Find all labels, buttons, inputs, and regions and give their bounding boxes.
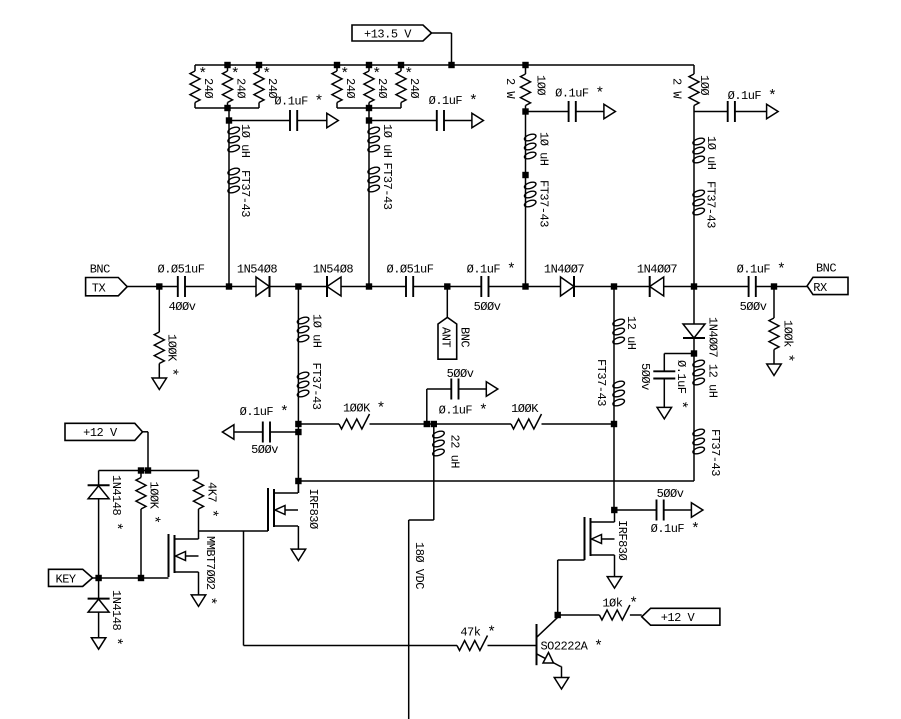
svg-text:1N4148 *: 1N4148 * bbox=[107, 590, 124, 645]
svg-text:Ø.1uF *: Ø.1uF * bbox=[737, 262, 786, 279]
svg-text:1ØØK *: 1ØØK * bbox=[162, 334, 179, 376]
node Q4 drain bbox=[611, 507, 617, 513]
off-page arrow mid bbox=[486, 382, 498, 397]
node 12uH branch junction bbox=[611, 283, 617, 289]
node Q4 gate/collector/10k bbox=[555, 612, 561, 618]
capacitor 0.1uF 500v C10 bbox=[427, 367, 488, 424]
svg-text:+12 V: +12 V bbox=[661, 611, 696, 625]
svg-text:1N4ØØ7: 1N4ØØ7 bbox=[544, 263, 585, 277]
svg-text:FT37-43: FT37-43 bbox=[309, 363, 323, 410]
svg-text:5ØØv: 5ØØv bbox=[657, 487, 684, 501]
svg-text:22 uH: 22 uH bbox=[448, 435, 462, 469]
svg-text:FT37-43: FT37-43 bbox=[594, 359, 608, 406]
node on top rail bbox=[334, 62, 340, 68]
svg-text:Ø.1uF *: Ø.1uF * bbox=[240, 404, 289, 421]
transistor MMBT7002 Q1 bbox=[169, 534, 218, 605]
wire D1 to D2 bbox=[270, 286, 328, 288]
wire +13.5V to top rail bbox=[432, 33, 452, 65]
capacitor 0.1uF 500v C11 bbox=[638, 354, 694, 409]
ground Q1 bbox=[191, 595, 206, 607]
wire chain1 bbox=[228, 153, 230, 287]
resistor 100K R-rail2-2 bbox=[511, 402, 541, 429]
inductor FT37-43 branch-left bbox=[594, 359, 625, 407]
wire Q4 drain bbox=[614, 510, 616, 522]
svg-text:24Ø: 24Ø bbox=[407, 78, 421, 98]
resistor 4K7 bbox=[194, 471, 220, 532]
label 180 VDC bbox=[412, 542, 426, 589]
resistor 100 2W group3 bbox=[503, 65, 548, 112]
wire Q2 drain bbox=[297, 481, 299, 493]
resistor 100K R-rail2-1 bbox=[339, 401, 385, 429]
node group bar bbox=[366, 105, 372, 111]
svg-text:1Ø uH: 1Ø uH bbox=[537, 132, 551, 166]
svg-text:IRF83Ø: IRF83Ø bbox=[306, 489, 320, 530]
wire node531 bbox=[199, 530, 269, 532]
svg-text:Ø.1uF *: Ø.1uF * bbox=[728, 88, 777, 105]
capacitor 0.1uF bypass group3 bbox=[526, 86, 604, 122]
node group3 tap bbox=[522, 108, 528, 114]
node group3 on rail bbox=[522, 62, 528, 68]
ground D7 bbox=[91, 638, 106, 650]
transistor IRF830 Q2 bbox=[268, 488, 320, 531]
resistor 47k bbox=[457, 625, 496, 651]
diode 1N4007 D5 vertical bbox=[683, 287, 720, 398]
node drain line left bbox=[295, 478, 301, 484]
transistor SO2222A Q3 bbox=[537, 615, 603, 678]
resistor 100K TX pulldown bbox=[154, 287, 179, 379]
node TX stub bbox=[156, 283, 162, 289]
svg-text:2 W: 2 W bbox=[503, 78, 517, 99]
svg-text:RX: RX bbox=[813, 281, 827, 295]
capacitor 0.1uF 500v C8 bbox=[737, 262, 786, 314]
svg-text:FT37-43: FT37-43 bbox=[537, 180, 551, 227]
node group bar bbox=[224, 105, 230, 111]
transistor IRF830 Q4 bbox=[585, 517, 630, 561]
svg-text:IRF83Ø: IRF83Ø bbox=[615, 520, 629, 561]
wire Q2 source to gnd bbox=[297, 526, 299, 549]
node chain4 junction bbox=[691, 283, 697, 289]
off-page arrow group3 bbox=[604, 104, 616, 119]
svg-text:TX: TX bbox=[92, 282, 106, 296]
svg-text:1N54Ø8: 1N54Ø8 bbox=[313, 263, 354, 277]
wire Q4 source to gnd bbox=[614, 555, 616, 577]
node chain2 junction bbox=[366, 283, 372, 289]
capacitor 0.1uF bypass group4 bbox=[694, 88, 776, 122]
wire rail2 mid seg bbox=[370, 423, 512, 425]
wire +12V drop bbox=[143, 432, 149, 471]
wire Q4 gate bbox=[558, 560, 585, 615]
wire +12V rail bbox=[99, 470, 199, 472]
inductor FT37-43 chain1 bbox=[227, 167, 252, 217]
wire KEY line bbox=[93, 577, 169, 579]
svg-text:1N4148 *: 1N4148 * bbox=[107, 475, 124, 530]
resistor 240 group2 #1 bbox=[332, 65, 357, 108]
inductor 10 uH chain2 bbox=[367, 124, 394, 158]
off-page arrow group4 bbox=[767, 104, 779, 119]
wire 47k line bbox=[244, 645, 458, 647]
node on top rail bbox=[256, 62, 262, 68]
node KEY 100K bbox=[138, 575, 144, 581]
inductor FT37-43 chain3 bbox=[524, 180, 551, 227]
connector KEY bbox=[49, 569, 93, 586]
off-page arrow group2 bbox=[472, 113, 484, 128]
off-page arrow left bbox=[222, 425, 234, 440]
node on top rail bbox=[366, 62, 372, 68]
svg-text:1ØØ: 1ØØ bbox=[534, 75, 548, 95]
node on top rail bbox=[398, 62, 404, 68]
wire bar to bypass node bbox=[368, 108, 370, 126]
connector BNC ANT bbox=[438, 317, 472, 359]
svg-text:24Ø: 24Ø bbox=[343, 78, 357, 98]
inductor FT37-43 chain4 bbox=[692, 181, 717, 228]
svg-text:18Ø VDC: 18Ø VDC bbox=[412, 542, 426, 589]
resistor 100 2W group4 bbox=[670, 65, 712, 112]
capacitor 0.1uF bypass group1 bbox=[229, 94, 327, 131]
svg-text:FT37-43: FT37-43 bbox=[238, 170, 252, 217]
capacitor 0.1uF 500v C12 bbox=[615, 487, 700, 538]
svg-text:5ØØv: 5ØØv bbox=[474, 300, 501, 314]
node on top rail bbox=[224, 62, 230, 68]
inductor 12 uH branch-left bbox=[612, 316, 638, 350]
wire top rail bbox=[195, 64, 694, 66]
wire D3 to D4 bbox=[574, 286, 650, 288]
svg-text:24Ø: 24Ø bbox=[375, 78, 389, 98]
inductor 12 uH branch-right bbox=[692, 338, 705, 386]
node chain3 junction bbox=[522, 283, 528, 289]
ground RX pulldown bbox=[767, 364, 782, 376]
inductor FT37-43 branch-right bbox=[692, 428, 722, 476]
node: +13.5V on top rail bbox=[448, 62, 454, 68]
svg-text:5ØØv: 5ØØv bbox=[740, 300, 767, 314]
svg-text:Ø.1uF *: Ø.1uF * bbox=[467, 262, 516, 279]
svg-text:Ø.1uF *: Ø.1uF * bbox=[429, 93, 478, 110]
wire group1 bottom bar bbox=[195, 107, 259, 109]
svg-text:2 W: 2 W bbox=[670, 78, 684, 99]
capacitor 0.051uF C6 bbox=[387, 263, 434, 298]
inductor 10 uH chain3 bbox=[524, 132, 551, 166]
svg-text:Ø.1uF *: Ø.1uF * bbox=[555, 86, 604, 103]
node KEY diode bbox=[95, 575, 101, 581]
node chain3 mid bbox=[522, 172, 528, 178]
wire drain line bbox=[298, 480, 694, 482]
diode 1N4007 D4 bbox=[637, 263, 678, 298]
svg-text:5ØØv: 5ØØv bbox=[447, 367, 474, 381]
off-page arrow C12 bbox=[691, 503, 703, 518]
wire 47k to base bbox=[488, 645, 537, 647]
svg-text:BNC: BNC bbox=[90, 263, 110, 277]
node chain298 junction bbox=[295, 283, 301, 289]
node D5 cathode bbox=[691, 350, 697, 356]
svg-text:ANT: ANT bbox=[439, 327, 453, 347]
capacitor 0.1uF bypass group2 bbox=[369, 93, 477, 131]
resistor 240 group2 #2 bbox=[364, 65, 389, 108]
inductor FT37-43 chain2 bbox=[367, 163, 394, 210]
svg-text:Ø.1uF *: Ø.1uF * bbox=[651, 521, 700, 538]
wire C5 to D1 bbox=[185, 286, 256, 288]
capacitor 0.051uF 400v C5 bbox=[158, 263, 205, 315]
svg-text:1Ø uH: 1Ø uH bbox=[380, 124, 394, 158]
node rail2 right bbox=[611, 421, 617, 427]
resistor 10k bbox=[558, 596, 638, 620]
resistor 240 group1 #3 bbox=[254, 65, 279, 108]
resistor 100k RX pulldown bbox=[769, 287, 795, 365]
wire D2 to C6 bbox=[341, 286, 406, 288]
wire bar to bypass node bbox=[228, 108, 230, 126]
wire chain5 bbox=[297, 287, 299, 494]
svg-text:FT37-43: FT37-43 bbox=[704, 181, 718, 228]
svg-text:+12 V: +12 V bbox=[83, 426, 118, 440]
diode 1N5408 D2 bbox=[313, 263, 354, 298]
svg-text:+13.5 V: +13.5 V bbox=[364, 28, 412, 42]
capacitor 0.1uF 500v C9 bbox=[234, 404, 299, 457]
inductor 10 uH chain4 bbox=[692, 136, 718, 170]
svg-text:1Ø uH: 1Ø uH bbox=[704, 136, 718, 170]
ground C11 bbox=[657, 407, 672, 419]
ground TX pulldown bbox=[152, 378, 167, 390]
svg-text:24Ø: 24Ø bbox=[234, 78, 248, 98]
svg-text:FT37-43: FT37-43 bbox=[380, 163, 394, 210]
svg-text:1Ø uH: 1Ø uH bbox=[238, 124, 252, 158]
node +12V entry bbox=[145, 467, 151, 473]
inductor 10 uH chain1 bbox=[227, 124, 252, 158]
resistor 240 group1 #1 bbox=[190, 65, 215, 108]
connector BNC TX bbox=[86, 263, 128, 296]
wire Q1 source to gnd bbox=[198, 572, 200, 595]
svg-text:BNC: BNC bbox=[816, 262, 836, 276]
wire branch-right bbox=[693, 386, 695, 481]
svg-text:1ØØ: 1ØØ bbox=[697, 75, 711, 95]
wire 180 VDC line bbox=[409, 424, 434, 719]
node RX stub bbox=[771, 283, 777, 289]
ground Q4 bbox=[607, 577, 622, 589]
inductor 10 uH chain5 bbox=[296, 314, 323, 348]
svg-text:Ø.Ø51uF: Ø.Ø51uF bbox=[387, 263, 434, 277]
connector BNC RX bbox=[807, 262, 848, 296]
wire rail2 right seg bbox=[542, 423, 615, 425]
svg-text:Ø.1uF *: Ø.1uF * bbox=[439, 403, 488, 420]
svg-text:Ø.1uF *: Ø.1uF * bbox=[672, 360, 689, 409]
svg-text:Ø.Ø51uF: Ø.Ø51uF bbox=[158, 263, 205, 277]
wire C7 to D3 bbox=[489, 286, 561, 288]
wire 10k to +12V bbox=[630, 614, 642, 616]
resistor 240 group1 #2 bbox=[223, 65, 248, 108]
svg-text:1ØØk *: 1ØØk * bbox=[778, 320, 795, 362]
resistor 100K R-key bbox=[136, 471, 161, 579]
node bypass tap bbox=[366, 117, 372, 123]
svg-text:KEY: KEY bbox=[56, 573, 76, 587]
node mid cap tap bbox=[424, 421, 430, 427]
wire 47k drop bbox=[243, 531, 245, 646]
svg-text:1ØØK: 1ØØK bbox=[511, 402, 539, 416]
inductor 22 uH bbox=[432, 430, 462, 468]
svg-text:1Øk *: 1Øk * bbox=[602, 596, 637, 613]
diode 1N4148 D7 bbox=[88, 578, 124, 645]
ground Q2 bbox=[291, 549, 306, 561]
node chain1 junction bbox=[226, 283, 232, 289]
svg-text:47k *: 47k * bbox=[460, 625, 495, 642]
wire group2 bottom bar bbox=[337, 107, 401, 109]
wire D4 to C8 bbox=[664, 286, 749, 288]
svg-text:12 uH: 12 uH bbox=[624, 316, 638, 350]
node rail2 left bbox=[295, 421, 301, 427]
svg-text:1ØØK *: 1ØØK * bbox=[343, 401, 385, 418]
wire chain4 bbox=[693, 112, 695, 287]
svg-text:SO2222A *: SO2222A * bbox=[540, 639, 602, 656]
wire C6 to C7 bbox=[413, 286, 481, 288]
power flag +13.5 V bbox=[352, 25, 432, 42]
node ANT junction bbox=[444, 283, 450, 289]
svg-text:1Ø uH: 1Ø uH bbox=[310, 314, 324, 348]
wire 12uH branch bbox=[613, 287, 615, 511]
power flag +12 V right bbox=[642, 608, 720, 625]
wire TX to C5 bbox=[127, 286, 178, 288]
svg-text:1N4ØØ7 12 uH: 1N4ØØ7 12 uH bbox=[706, 317, 720, 398]
resistor 240 group2 #3 bbox=[396, 65, 421, 108]
diode 1N5408 D1 bbox=[237, 263, 278, 298]
wire chain3 bbox=[525, 112, 527, 287]
wire chain2 bbox=[368, 153, 370, 287]
svg-text:1N54Ø8: 1N54Ø8 bbox=[237, 263, 278, 277]
diode 1N4148 D6 bbox=[88, 471, 124, 579]
svg-text:5ØØv: 5ØØv bbox=[638, 363, 652, 390]
svg-text:BNC: BNC bbox=[458, 327, 472, 347]
svg-text:FT37-43: FT37-43 bbox=[708, 429, 722, 476]
svg-text:Ø.1uF *: Ø.1uF * bbox=[274, 94, 323, 111]
wire Q1 drain bbox=[198, 531, 200, 539]
svg-text:4ØØv: 4ØØv bbox=[169, 300, 196, 314]
wire rail2 left seg bbox=[298, 423, 339, 425]
svg-text:1ØØK *: 1ØØK * bbox=[144, 482, 161, 524]
capacitor 0.1uF 500v C7 bbox=[467, 262, 516, 314]
wire C8 to RX bbox=[756, 286, 807, 288]
inductor FT37-43 chain5 bbox=[296, 363, 323, 410]
svg-text:1N4ØØ7: 1N4ØØ7 bbox=[637, 263, 678, 277]
wire ANT stub bbox=[446, 287, 448, 318]
svg-text:4K7 *: 4K7 * bbox=[202, 482, 219, 517]
power flag +12 V left bbox=[65, 423, 143, 440]
node cap stub left bbox=[295, 429, 301, 435]
svg-text:24Ø: 24Ø bbox=[201, 78, 215, 98]
node bypass tap bbox=[226, 117, 232, 123]
svg-text:5ØØv: 5ØØv bbox=[251, 443, 278, 457]
diode 1N4007 D3 bbox=[544, 263, 585, 298]
off-page arrow group1 bbox=[327, 113, 339, 128]
node 100K top bbox=[138, 467, 144, 473]
ground Q3 bbox=[554, 678, 569, 690]
node 22uH tap bbox=[431, 421, 437, 427]
